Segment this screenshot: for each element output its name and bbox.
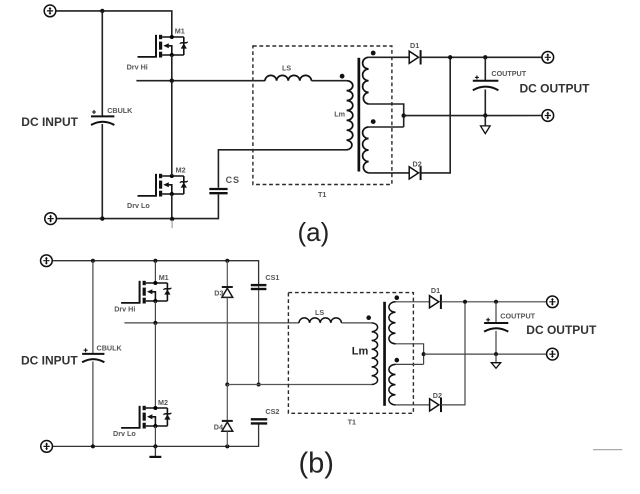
wire: CBULK branch lower (a) [101, 124, 103, 219]
wire: LS to Lm (a) [311, 80, 346, 82]
wire: mid rail switch node (a) [136, 80, 265, 82]
wire: M1 drain vertical (b) [154, 261, 156, 283]
wire: secondary bottom lead to D2 (b) [396, 404, 430, 406]
diode D4 (b) [222, 421, 233, 431]
node: junction CBULK bottom (a) [100, 216, 104, 220]
diode D2 (b) [430, 398, 441, 412]
node: junction D4 bottom (b) [225, 444, 229, 448]
wire: LS to Lm (b) [341, 322, 371, 324]
wire: negative output rail (b) [424, 353, 547, 355]
wire: top rail figure b [52, 261, 259, 284]
wire: COUTPUT lower branch (a) [484, 90, 486, 116]
wire: positive output rail (b) [441, 301, 547, 303]
wire: secondary bottom coil top lead (b) [396, 363, 424, 365]
capacitor COUTPUT (b) [484, 318, 508, 332]
svg-text:(a): (a) [298, 217, 330, 247]
transformer core T1 (a) [358, 58, 361, 172]
svg-text:M2: M2 [158, 398, 168, 407]
svg-text:D1: D1 [431, 286, 440, 295]
wire: CS1 upper lead (b) [258, 284, 260, 385]
svg-text:(b): (b) [299, 448, 334, 480]
svg-text:D2: D2 [413, 160, 422, 169]
diode D1 (a) [409, 50, 420, 64]
wire: positive output rail (a) [421, 56, 542, 58]
svg-text:Drv Hi: Drv Hi [114, 305, 135, 314]
node: junction CBULK top (a) [100, 9, 104, 13]
node: junction mid rail (b) [153, 321, 157, 325]
svg-text:D2: D2 [433, 391, 442, 400]
wire: M2 drain vertical (b) [154, 323, 156, 408]
wire: M2 source to bottom rail (a) [171, 194, 173, 219]
node: junction D1-D2 (b) [463, 300, 467, 304]
terminal input- (b) [41, 441, 53, 453]
artifact: faint gray line bottom right [593, 449, 622, 451]
capacitor CS (a) [209, 189, 227, 193]
node: junction mid rail (a) [170, 79, 174, 83]
wire: return rail to transformer (b) [227, 384, 371, 386]
svg-text:M2: M2 [176, 166, 186, 175]
svg-text:CS1: CS1 [265, 273, 279, 282]
node: junction CS1-CS2 mid (b) [257, 383, 261, 387]
svg-text:DC INPUT: DC INPUT [21, 353, 78, 367]
wire: negative output rail (a) [404, 115, 542, 117]
inductor Lm primary winding (a) [347, 81, 353, 150]
svg-text:DC OUTPUT: DC OUTPUT [520, 81, 591, 95]
terminal output+ (a) [542, 51, 554, 63]
wire: CBULK branch upper (a) [101, 11, 103, 116]
inductor LS (a) [265, 75, 311, 80]
wire: D3 lower lead to mid junction (b) [226, 297, 228, 384]
transformer T1 dashed box (b) [288, 293, 413, 414]
transistor M1 (a) [138, 35, 188, 58]
wire: secondary top coil lower lead (a) [369, 104, 404, 127]
node: junction M1 drain (b) [153, 259, 157, 263]
terminal input+ (b) [41, 255, 53, 267]
terminal input- (a) [45, 213, 57, 225]
wire: COUTPUT upper branch (a) [484, 57, 486, 80]
wire: M2 source to bottom rail (b) [154, 426, 156, 446]
wire: D4 upper lead (b) [226, 385, 228, 421]
capacitor CS1 (b) [251, 285, 267, 289]
terminal output- (b) [547, 348, 559, 360]
wire: mid rail switch node (b) [124, 322, 299, 324]
wire: M2 drain to mid rail (a) [171, 81, 173, 176]
node: secondary top polarity dot (b) [395, 295, 400, 300]
transformer core T1 (b) [383, 302, 386, 406]
wire: M1 source to mid rail (a) [171, 55, 173, 81]
wire: bottom rail figure a [56, 194, 218, 218]
wire: gray stub below bottom rail (a) [171, 220, 173, 228]
svg-text:D1: D1 [410, 41, 419, 50]
node: junction D1-D2 (a) [448, 55, 452, 59]
capacitor CBULK (b) [82, 348, 104, 362]
winding: secondary bottom coil (a) [363, 127, 369, 173]
capacitor CBULK (a) [91, 110, 114, 125]
inductor LS (b) [299, 318, 341, 323]
wire: CBULK branch lower (b) [92, 361, 94, 446]
node: primary polarity dot (a) [340, 74, 345, 79]
svg-text:Drv Lo: Drv Lo [127, 201, 150, 210]
wire: M1 source to mid rail (b) [154, 301, 156, 323]
node: center tap junction (a) [402, 113, 406, 117]
wire: CBULK branch upper (b) [92, 261, 94, 354]
node: secondary bottom polarity dot (a) [371, 119, 376, 124]
node: junction COUTPUT top (a) [483, 55, 487, 59]
wire: D3 upper lead (b) [226, 261, 228, 287]
node: junction M2 source bottom rail (b) [153, 444, 157, 448]
transformer T1 dashed box (a) [253, 46, 392, 185]
svg-text:LS: LS [315, 308, 324, 317]
wire: secondary top coil lower lead (b) [396, 344, 424, 365]
svg-text:LS: LS [282, 63, 291, 72]
svg-text:M1: M1 [175, 26, 185, 35]
svg-text:M1: M1 [159, 273, 169, 282]
wire: secondary bottom lead to D2 (a) [369, 172, 410, 174]
svg-text:Drv Lo: Drv Lo [113, 429, 136, 438]
winding: secondary bottom coil (b) [389, 364, 396, 405]
svg-text:Lm: Lm [334, 110, 345, 119]
transistor M2 (b) [121, 406, 171, 429]
wire: CS top to Lm return (a) [218, 150, 346, 188]
node: junction M2 source bottom rail (a) [170, 217, 174, 221]
svg-text:D3: D3 [214, 288, 223, 297]
svg-text:CS2: CS2 [265, 407, 279, 416]
ground symbol (a) [481, 116, 491, 134]
node: junction COUTPUT bottom (b) [494, 352, 498, 356]
terminal output- (a) [542, 110, 554, 122]
terminal output+ (b) [547, 296, 559, 308]
wire: top rail figure a [56, 11, 172, 37]
wire: COUTPUT upper branch (b) [495, 302, 497, 323]
terminal input+ (a) [44, 5, 56, 17]
svg-text:DC OUTPUT: DC OUTPUT [526, 323, 597, 337]
svg-text:CS: CS [226, 175, 240, 185]
svg-text:D4: D4 [214, 423, 223, 432]
svg-text:CBULK: CBULK [97, 343, 123, 352]
diode D2 (a) [409, 166, 420, 180]
wire: secondary top lead to D1 (a) [369, 56, 410, 58]
ground symbol (b) [491, 354, 500, 368]
wire: secondary top lead to D1 (b) [396, 301, 430, 303]
node: junction CBULK bottom (b) [91, 444, 95, 448]
svg-text:COUTPUT: COUTPUT [500, 312, 535, 321]
wire: bottom rail figure b [52, 424, 258, 446]
wire: D4 lower lead (b) [226, 431, 228, 446]
svg-text:Lm: Lm [352, 346, 369, 358]
ground symbol below M2 (b) [149, 446, 161, 457]
node: primary polarity dot (b) [366, 315, 371, 320]
capacitor CS2 (b) [251, 419, 267, 423]
svg-text:T1: T1 [318, 190, 326, 199]
transistor M2 (a) [138, 174, 188, 197]
wire: COUTPUT lower branch (b) [495, 331, 497, 354]
wire: D2 cathode to rectified node (a) [421, 57, 451, 173]
diode D3 (b) [222, 287, 233, 297]
node: junction CBULK top (b) [91, 259, 95, 263]
node: junction COUTPUT top (b) [494, 300, 498, 304]
node: junction D3 top (b) [225, 259, 229, 263]
transistor M1 (b) [121, 281, 171, 304]
node: secondary top polarity dot (a) [371, 51, 376, 56]
node: junction D3-D4 mid (b) [225, 383, 229, 387]
svg-text:CBULK: CBULK [107, 106, 133, 115]
wire: D2 cathode to rectified node (b) [441, 302, 465, 405]
inductor Lm primary winding (b) [372, 323, 378, 385]
node: secondary bottom polarity dot (b) [395, 358, 400, 363]
wire: secondary bottom coil top lead (a) [369, 126, 404, 128]
winding: secondary top coil (a) [363, 57, 369, 104]
capacitor COUTPUT (a) [473, 75, 499, 90]
diode D1 (b) [430, 295, 441, 309]
svg-text:Drv Hi: Drv Hi [127, 62, 148, 71]
node: center tap junction (b) [422, 352, 426, 356]
winding: secondary top coil (b) [389, 302, 396, 344]
svg-text:T1: T1 [348, 417, 356, 426]
svg-text:DC INPUT: DC INPUT [21, 115, 78, 129]
node: junction COUTPUT bottom (a) [483, 113, 487, 117]
svg-text:COUTPUT: COUTPUT [491, 69, 526, 78]
